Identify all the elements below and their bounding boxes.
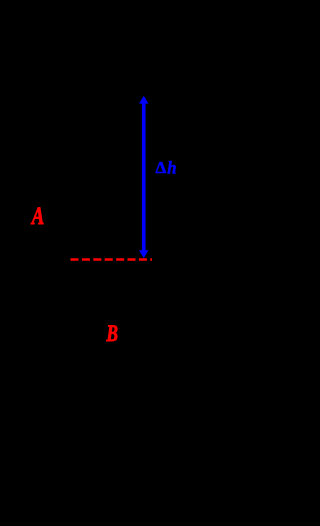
svg-text:A: A bbox=[30, 203, 44, 230]
svg-text:Δ: Δ bbox=[156, 158, 167, 177]
dashed level line (red) bbox=[71, 258, 153, 260]
arrow shaft (blue, vertical) bbox=[142, 102, 146, 252]
arrowhead top bbox=[139, 96, 149, 104]
svg-text:h: h bbox=[167, 158, 176, 178]
arrowhead bottom bbox=[139, 250, 149, 258]
svg-text:B: B bbox=[106, 321, 118, 346]
